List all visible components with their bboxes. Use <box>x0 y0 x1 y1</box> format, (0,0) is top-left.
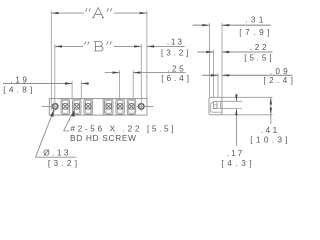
leader dia .13 <box>36 110 55 158</box>
extension line B left / hole centerline <box>54 44 56 111</box>
side view body <box>209 97 222 115</box>
arrow A left <box>51 12 58 14</box>
arrow .19 left <box>65 82 72 84</box>
svg-text:[4.8]: [4.8] <box>3 85 32 95</box>
side ext line .31 left <box>209 23 211 97</box>
svg-text:[6.4]: [6.4] <box>161 73 189 83</box>
screw 3 <box>85 103 91 109</box>
label A with quotes <box>86 8 112 18</box>
dimension line .25 <box>105 72 120 74</box>
svg-text:.25: .25 <box>167 64 184 74</box>
terminal cell 4 <box>105 99 113 114</box>
extension lines .25 <box>119 70 121 98</box>
dimension line .09 <box>202 74 218 76</box>
svg-text:.22: .22 <box>250 42 267 52</box>
screw 5 <box>117 103 123 109</box>
extension line A right <box>146 11 148 99</box>
terminal cell 6 <box>127 99 135 114</box>
centerline right hole horizontal <box>137 105 154 107</box>
mounting hole right <box>139 104 144 109</box>
svg-text:[4.3]: [4.3] <box>221 158 251 168</box>
terminal cell 5 <box>116 99 124 114</box>
arrow .17 top <box>235 95 237 102</box>
side view screw block <box>213 101 217 108</box>
terminal cell 2 <box>73 99 81 114</box>
ext line .41 top <box>222 96 273 98</box>
dimension line .13 <box>147 45 185 47</box>
arrow .31 right <box>222 24 229 26</box>
svg-text:[10.3]: [10.3] <box>250 134 287 144</box>
centerline left hole horizontal <box>42 105 59 107</box>
arrow .41 top <box>270 97 272 104</box>
arrow .09 right <box>222 74 229 76</box>
arrowheads <box>50 12 272 117</box>
dimension line B <box>55 45 83 47</box>
screw 2 <box>74 103 80 109</box>
svg-text:.13: .13 <box>167 37 183 47</box>
dimension line .17 vertical <box>235 94 237 102</box>
arrow .13 right <box>147 45 154 47</box>
arrow .19 right <box>81 82 88 84</box>
svg-text:.17: .17 <box>227 148 243 158</box>
svg-text:.31: .31 <box>245 15 263 25</box>
arrow B right / .13 left <box>134 45 141 47</box>
leader #2-56 screw <box>64 110 75 131</box>
svg-text:[3.2]: [3.2] <box>48 158 77 168</box>
side view inner wall <box>211 103 222 112</box>
svg-text:Ø.13: Ø.13 <box>43 148 69 158</box>
svg-text:[7.9]: [7.9] <box>239 27 269 37</box>
screw 4 <box>106 103 112 109</box>
dimension line A <box>51 12 84 14</box>
arrow leader screw <box>71 110 74 117</box>
svg-text:[5.5]: [5.5] <box>244 53 271 63</box>
dimension line .41 vertical <box>270 97 272 124</box>
screw 6 <box>129 103 135 109</box>
ext line .41 bottom <box>222 114 273 116</box>
arrow A right <box>140 12 147 14</box>
arrow .09 left <box>211 74 218 76</box>
ext line .17 bottom <box>218 108 242 110</box>
arrow .25 left <box>112 71 119 73</box>
dimension texts <box>3 15 293 169</box>
extension line A left <box>50 11 52 111</box>
arrow .25 right <box>133 71 140 73</box>
side view clamp line <box>219 101 221 108</box>
side ext line .09 left <box>217 73 219 97</box>
side ext line .22 left <box>212 50 214 98</box>
dimension line .31 <box>193 25 293 75</box>
svg-text:.19: .19 <box>10 74 27 84</box>
label B with quotes <box>84 41 111 51</box>
arrow leader dia.13 <box>50 110 54 117</box>
arrow .41 bottom <box>270 108 272 115</box>
terminal block body (front view) <box>49 99 147 116</box>
ext line .17 top <box>218 100 242 102</box>
terminal cell 3 <box>84 99 92 114</box>
arrow .22 left <box>206 51 213 53</box>
dimension line .19 <box>3 83 72 85</box>
svg-text:[2.4]: [2.4] <box>264 75 293 85</box>
svg-text:.41: .41 <box>261 125 278 135</box>
mounting hole left <box>53 104 58 109</box>
svg-text:[3.2]: [3.2] <box>161 47 189 57</box>
side ext line right edge <box>221 23 223 97</box>
arrow .22 right <box>222 51 229 53</box>
break line right <box>102 99 104 116</box>
extension line B right / hole centerline <box>140 44 142 111</box>
arrow B left <box>55 45 62 47</box>
terminal cell 1 <box>61 99 69 114</box>
extension lines .19 <box>71 81 73 99</box>
arrow .31 left <box>202 24 209 26</box>
dimension line .22 <box>197 51 213 53</box>
screw 1 <box>62 103 68 109</box>
svg-text:BD HD SCREW: BD HD SCREW <box>70 133 136 143</box>
break line left <box>91 99 93 116</box>
arrow .17 bottom <box>235 109 237 116</box>
